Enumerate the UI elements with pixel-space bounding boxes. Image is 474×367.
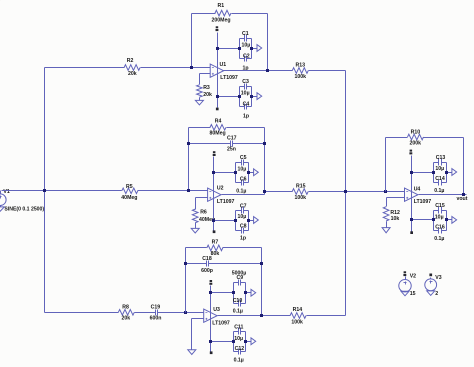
net flag -15 below U3 rail [210, 351, 213, 354]
ground (rotated) at C7/C8 [249, 217, 259, 224]
svg-text:600p: 600p [201, 268, 213, 274]
wire U2 non-inverting input to R6 [196, 198, 208, 210]
svg-text:U4: U4 [414, 186, 421, 192]
ground (rotated) at C1/C2 [252, 45, 262, 52]
svg-text:600n: 600n [150, 316, 162, 322]
svg-text:15: 15 [410, 291, 416, 297]
capacitor C1 [240, 31, 252, 59]
wire U4 non-inverting input to R12 [387, 198, 405, 207]
svg-text:10µ: 10µ [238, 167, 247, 173]
svg-text:C4: C4 [243, 102, 250, 108]
svg-text:C18: C18 [202, 256, 212, 262]
svg-text:40Meg: 40Meg [121, 195, 137, 201]
wire feed to C5/C6 [212, 171, 236, 174]
ground under U3 non-inverting input [188, 350, 196, 355]
capacitor C18 [201, 256, 213, 274]
capacitor C12 [234, 346, 246, 363]
op-amp U1 [210, 62, 238, 81]
svg-text:V2: V2 [410, 274, 416, 280]
svg-text:R3: R3 [203, 85, 210, 91]
ground under V1 [0, 206, 4, 212]
junction dots C13/C14 [432, 171, 448, 174]
svg-text:R14: R14 [293, 307, 303, 313]
wire C18 branch [184, 262, 263, 265]
svg-text:1p: 1p [240, 236, 246, 242]
resistor R7 [207, 240, 223, 258]
wire summing line R15 [263, 190, 405, 193]
svg-text:C15: C15 [435, 203, 445, 209]
svg-text:20k: 20k [128, 71, 137, 77]
ground under V2 [401, 291, 409, 296]
svg-text:C7: C7 [240, 204, 247, 210]
svg-text:C11: C11 [234, 324, 243, 330]
svg-text:C3: C3 [242, 79, 249, 85]
svg-text:R10: R10 [411, 129, 421, 135]
resistor R14 [290, 307, 306, 325]
net flag +15 above V3 [429, 274, 432, 277]
svg-text:10µ: 10µ [234, 336, 243, 342]
resistor R12 [383, 207, 400, 222]
svg-text:R7: R7 [212, 240, 219, 246]
wire R1 feedback loop [192, 14, 268, 71]
svg-text:200k: 200k [410, 140, 422, 146]
op-amp U2 [208, 185, 235, 205]
voltage source V2 [399, 274, 416, 298]
svg-text:R6: R6 [200, 210, 207, 216]
net flag +15 above U2 rail [213, 151, 216, 156]
svg-text:R5: R5 [126, 184, 133, 190]
resistor R8 [118, 304, 134, 321]
svg-text:200Meg: 200Meg [212, 17, 231, 23]
capacitor C5 [236, 155, 249, 182]
wire feed to C1/C2 [216, 47, 240, 50]
ground (rotated) at C15/C16 [447, 217, 457, 224]
capacitor C17 [227, 135, 237, 152]
svg-text:V3: V3 [435, 275, 441, 281]
net flag -15 below U1 rail [216, 108, 219, 111]
svg-text:0.1µ: 0.1µ [233, 308, 243, 314]
svg-text:C19: C19 [151, 304, 161, 310]
svg-text:100k: 100k [291, 319, 303, 325]
svg-text:C10: C10 [233, 298, 243, 304]
svg-text:10µ: 10µ [242, 43, 251, 49]
svg-text:100k: 100k [295, 74, 307, 80]
resistor R10 [408, 129, 424, 146]
svg-text:20k: 20k [203, 92, 212, 98]
power rail V+/V- of U4 [411, 156, 413, 232]
capacitor C10 [233, 298, 246, 314]
wire feed to C11/C12 [209, 340, 234, 343]
resistor R15 [292, 184, 308, 201]
wire R10 feedback loop [386, 138, 464, 195]
junction dots C15/C16 [432, 218, 448, 221]
ground (rotated) at C13/C14 [447, 169, 457, 176]
wire U4 output vout [419, 193, 467, 196]
ground under V3 [427, 291, 435, 296]
resistor R3 [197, 85, 212, 98]
svg-text:LT1097: LT1097 [212, 320, 230, 326]
net flag -15 below U2 rail [213, 230, 216, 233]
power rail V+/V- of U1 [217, 33, 219, 108]
svg-text:U3: U3 [213, 307, 220, 313]
junction dots C5/C6 [234, 171, 250, 174]
svg-text:10k: 10k [391, 216, 400, 222]
resistor R4 [210, 119, 227, 137]
svg-text:1p: 1p [243, 113, 249, 119]
ground (rotated) at C11/C12 [246, 338, 256, 345]
ground under R3 [195, 98, 203, 105]
svg-text:LT1097: LT1097 [217, 199, 235, 205]
svg-text:10µ: 10µ [238, 214, 247, 220]
wire feed to C9/C10 [209, 291, 234, 294]
svg-text:LT1097: LT1097 [414, 199, 432, 205]
resistor R6 [192, 209, 215, 223]
svg-text:80k: 80k [211, 251, 220, 257]
wire R7/C18 feedback loop [186, 248, 262, 316]
svg-text:100k: 100k [295, 195, 307, 201]
wire U2 output stub [222, 194, 265, 196]
wire right-mid vertical (R13/R14 to summing node) [345, 71, 347, 316]
junction dots C11/C12 [232, 340, 247, 343]
junction dots C3/C4 [238, 95, 253, 98]
capacitor C3 [240, 79, 252, 107]
junction dots C1/C2 [238, 47, 253, 50]
net flag -15 above V2 [403, 271, 406, 276]
net flag +15 above U4 rail [409, 150, 412, 155]
svg-text:C6: C6 [240, 177, 247, 183]
svg-text:25n: 25n [227, 146, 236, 152]
svg-text:10µ: 10µ [435, 215, 444, 221]
svg-text:20k: 20k [122, 316, 131, 322]
voltage source V1 [0, 189, 44, 213]
wire feed to C3/C4 [216, 95, 240, 98]
capacitor C7 [236, 204, 249, 231]
capacitor C9 [232, 271, 247, 304]
resistor R13 [292, 63, 308, 80]
svg-text:0.1µ: 0.1µ [236, 189, 246, 195]
wire feed to C15/C16 [410, 218, 434, 221]
svg-text:R2: R2 [127, 58, 134, 64]
op-amp U4 [405, 186, 432, 205]
svg-text:C12: C12 [235, 346, 245, 352]
svg-text:C2: C2 [243, 53, 250, 59]
svg-text:C17: C17 [227, 135, 237, 141]
capacitor C15 [434, 203, 447, 231]
svg-text:R8: R8 [122, 304, 129, 310]
resistor R2 [124, 58, 140, 77]
wire C17 branch [187, 142, 266, 145]
svg-text:C13: C13 [436, 155, 446, 161]
svg-text:R13: R13 [296, 63, 306, 69]
wire stage3 input line [45, 311, 204, 314]
wire U3 non-inverting input to ground [192, 319, 204, 350]
capacitor C13 [434, 155, 447, 183]
svg-text:U2: U2 [217, 185, 224, 191]
svg-text:SINE(0 0.1 2500): SINE(0 0.1 2500) [4, 207, 44, 213]
svg-text:0.1µ: 0.1µ [434, 188, 444, 194]
ground (rotated) at C5/C6 [249, 169, 259, 176]
svg-text:5000µ: 5000µ [232, 271, 247, 277]
capacitor C8 [236, 224, 249, 242]
svg-text:10µ: 10µ [241, 90, 250, 96]
power rail V+/V- of U2 [213, 157, 215, 233]
capacitor C19 [150, 304, 162, 321]
ground under R12 [382, 222, 390, 233]
capacitor C4 [240, 102, 252, 120]
voltage source V3 [425, 275, 442, 297]
capacitor C16 [434, 225, 447, 243]
svg-text:R4: R4 [215, 119, 222, 125]
wire U3 output line [218, 314, 346, 317]
svg-text:V1: V1 [3, 189, 9, 195]
node vout label [457, 196, 468, 202]
svg-text:10µ: 10µ [435, 166, 444, 172]
capacitor C11 [234, 324, 246, 351]
svg-text:0.1µ: 0.1µ [434, 236, 444, 242]
svg-text:U1: U1 [220, 62, 227, 68]
svg-text:2: 2 [435, 291, 438, 297]
svg-text:C5: C5 [240, 155, 247, 161]
power rail V+/V- of U3 [210, 286, 212, 352]
wire R4/C17 feedback loop [187, 128, 265, 195]
ground (rotated) at C3/C4 [252, 93, 262, 100]
junction dots C9/C10 [232, 291, 247, 294]
wire U1 non-inverting input to R3 [200, 74, 211, 85]
svg-text:C14: C14 [435, 176, 445, 182]
svg-text:0.1µ: 0.1µ [234, 358, 244, 364]
net flag +15 above U3 rail [209, 280, 212, 285]
resistor R5 [121, 184, 138, 201]
wire stage1 input line [45, 67, 211, 69]
ground (rotated) at C9/C10 [246, 289, 256, 296]
svg-text:R1: R1 [218, 3, 225, 9]
svg-text:80Meg: 80Meg [210, 130, 226, 136]
svg-text:C8: C8 [240, 224, 247, 230]
svg-text:C1: C1 [242, 31, 249, 37]
node stage1 inverting input junction [190, 66, 193, 69]
capacitor C2 [240, 53, 252, 71]
junction dots C7/C8 [234, 219, 250, 222]
svg-text:R15: R15 [296, 184, 306, 190]
svg-text:LT1097: LT1097 [220, 75, 238, 81]
wire stage2 input line [2, 189, 208, 192]
svg-text:vout: vout [457, 196, 468, 202]
net flag -15 below U4 rail [410, 231, 413, 234]
capacitor C14 [434, 176, 447, 194]
wire U1 output line [224, 69, 346, 72]
wire feed to C13/C14 [410, 171, 434, 174]
net flag +15 above U1 rail [216, 26, 219, 31]
op-amp U3 [204, 307, 230, 327]
svg-text:C16: C16 [435, 225, 445, 231]
wire input bus vertical [44, 68, 46, 313]
capacitor C6 [236, 177, 249, 195]
ground under R6 [191, 223, 199, 234]
wire feed to C7/C8 [212, 219, 236, 222]
resistor R1 [212, 3, 232, 23]
